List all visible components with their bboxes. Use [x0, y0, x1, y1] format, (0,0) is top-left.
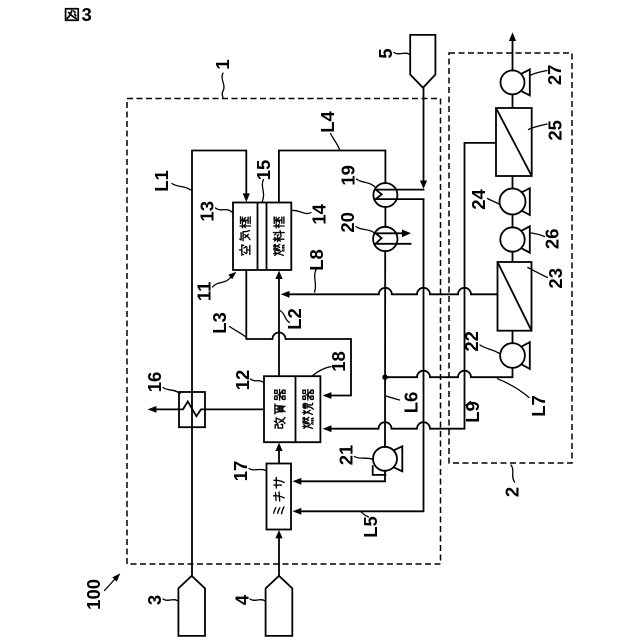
- label L2 with leader: [280, 308, 305, 330]
- wire tank4 to mixer with arrow: [275, 530, 282, 576]
- svg-text:L9: L9: [462, 401, 483, 423]
- label 19 with leader: [338, 165, 375, 187]
- dryer 25 box with diagonal: [496, 108, 532, 176]
- svg-text:19: 19: [338, 165, 359, 186]
- svg-text:20: 20: [337, 212, 358, 233]
- label 4 with leader: [232, 594, 266, 605]
- label 25 with leader: [529, 120, 566, 141]
- heat exchanger 20 circle: [373, 227, 397, 251]
- junction node on L6/L7: [382, 375, 387, 380]
- mixer 17: [267, 464, 292, 530]
- label L1 with leader: [151, 170, 191, 192]
- heat exchanger 16 box: [179, 392, 205, 427]
- svg-text:21: 21: [335, 445, 356, 466]
- svg-text:L5: L5: [360, 516, 381, 538]
- svg-text:14: 14: [308, 203, 329, 224]
- svg-text:L8: L8: [306, 249, 327, 271]
- blower 27 circle with fan: [501, 69, 530, 95]
- HX20 side stubs, chevron and out-arrow: [376, 230, 411, 244]
- label 1 with leader: [212, 59, 233, 98]
- blower 22 circle with fan: [500, 342, 530, 369]
- label 27 with leader: [531, 65, 565, 86]
- label 20 with leader: [337, 212, 375, 233]
- svg-text:15: 15: [253, 160, 274, 181]
- supply source 3: [178, 576, 205, 636]
- svg-text:3: 3: [144, 595, 165, 605]
- svg-text:L6: L6: [401, 392, 422, 414]
- mixer text: [274, 477, 285, 513]
- svg-text:100: 100: [83, 579, 104, 610]
- blower 24 circle with fan: [500, 188, 530, 215]
- dashed enclosure 1 (fuel cell module): [127, 99, 441, 565]
- svg-text:L2: L2: [284, 308, 305, 330]
- label L7 with leader: [498, 379, 549, 417]
- water tank 5: [410, 35, 435, 88]
- svg-text:3: 3: [82, 4, 92, 25]
- svg-text:L1: L1: [151, 170, 172, 192]
- label 13 with leader: [197, 201, 233, 222]
- svg-text:27: 27: [544, 65, 565, 86]
- air electrode text in fuel cell: [240, 217, 251, 255]
- label L6 with leader: [386, 392, 422, 414]
- dryer 23 box with diagonal: [498, 262, 532, 331]
- wire between HX19 and HX20: [384, 207, 386, 227]
- wire from blower 21 to mixer with arrow: [293, 471, 386, 485]
- wire L6: HX20 down to blower 21: [384, 251, 386, 447]
- label 22 with leader: [461, 331, 499, 353]
- label 100 with arrow: [83, 573, 121, 610]
- exhaust arrow out of blower 27: [509, 32, 516, 70]
- svg-text:11: 11: [193, 282, 214, 302]
- wire L5: water line from HX19 down to mixer with arrow: [293, 199, 424, 515]
- svg-text:18: 18: [328, 351, 349, 372]
- svg-text:13: 13: [197, 201, 218, 222]
- dashed enclosure 2 (exhaust processing unit): [449, 53, 572, 463]
- label 14 with leader: [292, 203, 329, 224]
- svg-text:17: 17: [230, 461, 251, 482]
- wire L3: cathode offgas to combustor with hop and arrow: [246, 270, 351, 399]
- label 18 with leader: [313, 351, 350, 376]
- label L9 with leader: [462, 401, 483, 423]
- label 12 with leader: [232, 370, 264, 391]
- label figure title: [66, 4, 92, 25]
- wire L1 air supply: tank3 up through HX16 to cathode with arrow: [192, 151, 250, 576]
- heat exchanger 19 circle: [373, 183, 397, 207]
- fuel electrode text in fuel cell: [273, 217, 284, 256]
- wire L4: anode top to heat exchanger 19: [279, 151, 386, 203]
- label L3 with leader: [209, 312, 246, 337]
- label 17 with leader: [230, 461, 266, 482]
- label 23 with leader: [528, 268, 566, 289]
- blower 21 circle with fan and tail: [373, 446, 403, 475]
- svg-text:24: 24: [468, 189, 489, 210]
- wires connecting box2 chain components: [512, 94, 514, 343]
- svg-text:23: 23: [545, 268, 566, 289]
- svg-text:2: 2: [502, 487, 523, 497]
- svg-text:5: 5: [375, 48, 396, 58]
- label 21 with leader: [335, 445, 373, 466]
- wire L2: reformer to anode with arrow: [275, 271, 282, 377]
- wire from tank5 down to HX19 with arrow: [420, 88, 427, 189]
- svg-text:L3: L3: [209, 312, 230, 334]
- label 24 with leader: [468, 189, 500, 210]
- reformer text: [274, 390, 285, 429]
- svg-text:16: 16: [144, 372, 165, 393]
- label 15 with leader: [253, 160, 274, 202]
- svg-text:12: 12: [232, 370, 253, 391]
- svg-text:L4: L4: [317, 110, 338, 132]
- label L4 with leader: [317, 110, 340, 149]
- label 5 with leader: [375, 48, 410, 58]
- svg-text:4: 4: [232, 594, 253, 605]
- svg-text:25: 25: [545, 120, 566, 141]
- label 16 with leader: [144, 372, 180, 394]
- HX19 side stubs and chevron: [376, 190, 424, 200]
- label 26 with leader: [531, 229, 563, 250]
- svg-text:26: 26: [542, 229, 563, 250]
- label L5 with leader: [360, 512, 381, 538]
- svg-text:L7: L7: [528, 395, 549, 417]
- label 2 with leader: [502, 465, 523, 497]
- reformer unit 12 (reformer + combustor 18): [264, 376, 320, 442]
- blower 26 circle with fan: [500, 226, 530, 252]
- fuel cell 11 (box with air electrode 13, electrolyte 15, fuel electrode 14): [233, 203, 291, 271]
- supply source 4: [266, 576, 293, 636]
- combustor text: [303, 390, 314, 429]
- wire L9: from box25 down and into combustor with hops and arrow: [323, 143, 496, 432]
- label 11 with arrow leader: [193, 272, 236, 301]
- wire L7: junction to blower 22 with hops: [385, 368, 513, 377]
- wire exhaust from reformer through HX16 with zigzag and arrow: [148, 402, 264, 417]
- svg-text:22: 22: [461, 331, 482, 352]
- label 3 with leader: [144, 595, 178, 605]
- label L8 with leader: [306, 249, 327, 292]
- wire L8: recycle line from box23 to L2 with hops and arrow: [281, 288, 498, 298]
- svg-text:1: 1: [212, 59, 233, 69]
- wire mixer to reformer with arrow: [275, 443, 282, 464]
